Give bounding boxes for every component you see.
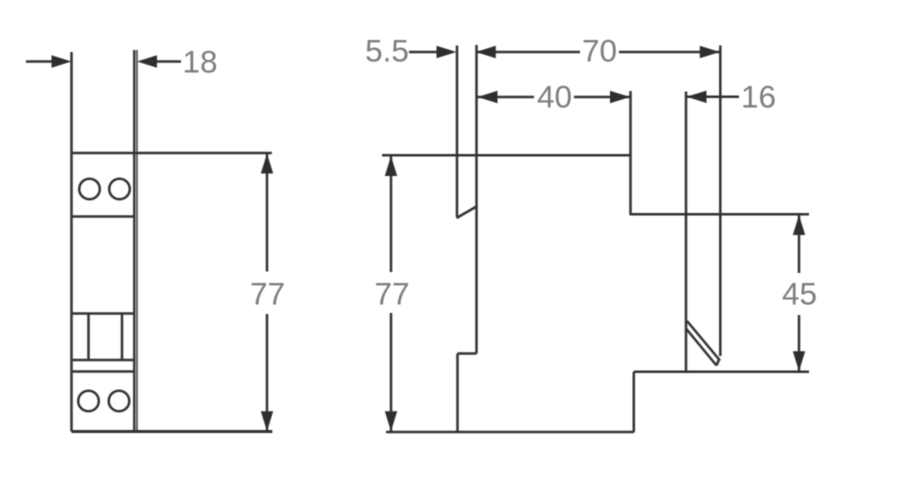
side view: rear face + 70 right extension — [719, 46, 722, 357]
dim 77 left view: arrowhead up — [261, 154, 273, 174]
front view: top terminal screw right — [109, 179, 130, 200]
side view: rail recess front line + 16 extension — [685, 92, 688, 372]
front view: top edge extended to 77 dimension — [72, 152, 272, 155]
front view: body left edge / extension line — [70, 52, 73, 432]
dim 77 left view: dimension line upper part — [266, 154, 269, 272]
dim 18: left leader line — [26, 60, 53, 63]
dim 77 left view: arrowhead down — [261, 411, 273, 431]
side view: rear step vertical edge — [633, 372, 636, 432]
svg-text:77: 77 — [374, 276, 409, 312]
svg-text:70: 70 — [582, 33, 617, 69]
front view: divider under top terminal block — [72, 215, 136, 218]
side view: front lower step horizontal — [458, 352, 477, 355]
front view: bottom terminal screw right — [109, 391, 130, 412]
svg-text:5.5: 5.5 — [365, 33, 409, 69]
dim 16: arrowhead pointing left at recess line — [687, 91, 707, 103]
side view: rear top shoulder extended to 45 dimension — [630, 213, 810, 216]
front view: lower divider line — [72, 370, 136, 373]
side view: DIN clip bottom tick — [717, 360, 720, 366]
dim 45: dimension line upper part — [798, 216, 801, 274]
dim 45: arrowhead up — [793, 215, 805, 235]
dim 77 side view: arrowhead down — [385, 411, 397, 431]
side view: toggle handle front line + 5.5 extension — [456, 46, 459, 217]
dim 45: dimension line lower part — [798, 315, 801, 371]
svg-text:18: 18 — [182, 44, 217, 80]
dim 40: arrowhead pointing left at front face — [478, 91, 498, 103]
dim 77 side view: dimension line upper part — [390, 157, 393, 273]
svg-text:45: 45 — [782, 276, 817, 312]
side view: bottom edge extended to 77 dimension — [386, 431, 634, 434]
dim 16: leader line through rear face — [687, 96, 740, 99]
dim 18: arrowhead pointing right at left body edge — [52, 55, 72, 67]
dim 70: dimension line left part — [476, 51, 580, 54]
svg-text:16: 16 — [741, 79, 776, 115]
front view: bottom edge extended to 77 dimension — [72, 430, 273, 433]
dim 40: dimension line right part — [574, 96, 630, 99]
dim 70: dimension line right part — [619, 51, 720, 54]
side view: DIN clip diagonal lower stroke — [686, 329, 717, 366]
dim 45: arrowhead down — [793, 351, 805, 371]
svg-text:40: 40 — [537, 79, 572, 115]
front view: toggle lever right edge — [121, 314, 124, 361]
front view: bottom terminal screw left — [78, 391, 99, 412]
svg-text:77: 77 — [250, 276, 285, 312]
front view: toggle section top line — [72, 312, 136, 315]
front view: top terminal screw left — [79, 179, 100, 200]
side view: lower front face — [456, 354, 459, 433]
dim 40: dimension line left part — [478, 96, 535, 99]
dim 18: arrowhead pointing left at right body edge — [137, 55, 157, 67]
side view: DIN clip diagonal upper stroke — [687, 321, 720, 361]
side view: top section rear edge + 40 extension — [629, 91, 632, 214]
dim 70: arrowhead pointing left at front face — [476, 46, 496, 58]
dim 5.5: arrowhead pointing right at handle line — [437, 46, 457, 58]
dim 77 side view: arrowhead up — [385, 156, 397, 176]
dim 77 side view: dimension line lower part — [390, 313, 393, 431]
dim 77 left view: dimension line lower part — [266, 314, 269, 431]
dim 40: arrowhead pointing right at rear edge of top section — [610, 91, 630, 103]
side view: front face + 70/40 left extension — [475, 45, 478, 354]
side view: toggle handle bottom diagonal — [457, 207, 477, 219]
dim 18: right leader line — [155, 60, 181, 63]
side view: top edge extended to 77 dimension — [382, 154, 631, 157]
dim 70: arrowhead pointing right at rear face — [700, 46, 720, 58]
dim 5.5: leader line — [409, 51, 439, 54]
front view: 18 dim right extension line — [136, 50, 138, 432]
front view: body right edge — [133, 50, 135, 432]
side view: rear lower step extended to 45 dimension — [634, 371, 809, 374]
front view: toggle section bottom line — [72, 359, 136, 362]
front view: toggle lever left edge — [87, 314, 90, 361]
